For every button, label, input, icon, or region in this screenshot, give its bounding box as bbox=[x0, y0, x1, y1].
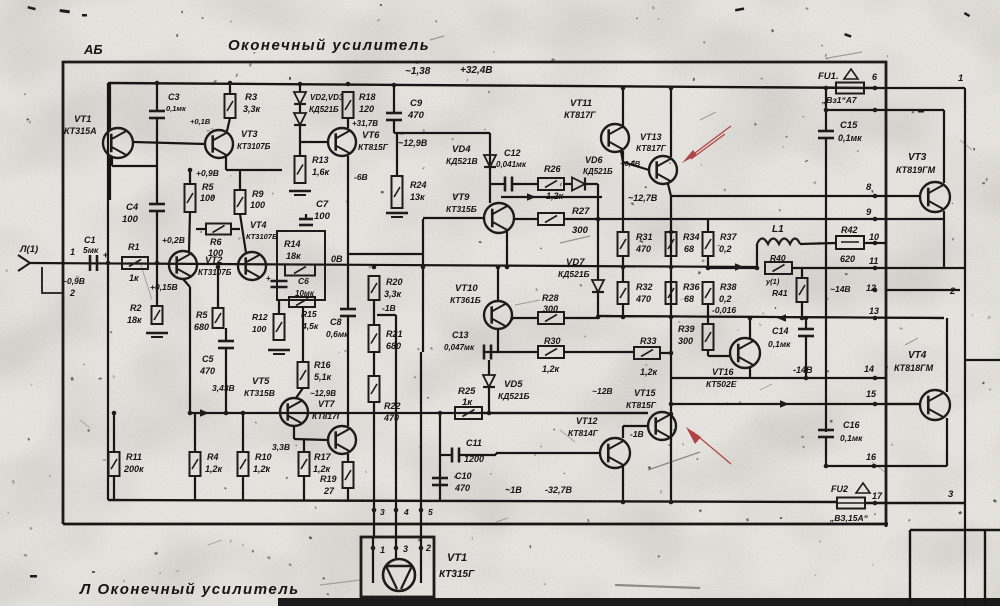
C16 to pin16 wire bbox=[825, 437, 827, 466]
svg-text:C10: C10 bbox=[455, 471, 472, 481]
resistor R34 bbox=[666, 232, 677, 256]
pin13 bus bbox=[598, 316, 944, 318]
net3 corner horizontal bbox=[910, 529, 1000, 531]
resistor R39 bbox=[703, 324, 714, 350]
svg-text:R9: R9 bbox=[252, 189, 264, 199]
svg-text:КД521Б: КД521Б bbox=[583, 167, 613, 176]
svg-text:-0,016: -0,016 bbox=[712, 305, 736, 315]
junction base rail bus bbox=[421, 265, 426, 270]
resistor R16 bbox=[298, 362, 309, 388]
svg-text:R10: R10 bbox=[255, 452, 272, 462]
svg-text:VT2: VT2 bbox=[205, 255, 223, 266]
net3 corner vertical bbox=[909, 530, 911, 606]
VT9-VT10 base rail bbox=[422, 219, 424, 352]
svg-text:КД521Б: КД521Б bbox=[309, 105, 339, 114]
svg-text:0,1мк: 0,1мк bbox=[166, 104, 187, 113]
junction C14 top bbox=[804, 316, 809, 321]
svg-text:1,2к: 1,2к bbox=[640, 367, 658, 377]
svg-text:VD7: VD7 bbox=[566, 257, 585, 268]
VT1 emitter link bbox=[112, 165, 157, 167]
junction VT12 gnd bbox=[621, 500, 626, 505]
resistor R5 bbox=[185, 184, 196, 212]
resistor R31 bbox=[618, 232, 629, 256]
junction R11 bus bbox=[112, 411, 117, 416]
R17 bottom bbox=[303, 476, 305, 500]
svg-text:R18: R18 bbox=[359, 92, 376, 102]
R2 top wire bbox=[156, 263, 158, 306]
junction pin8 top a bbox=[824, 108, 829, 113]
VT3 emitter down bbox=[943, 211, 945, 268]
resistor R6 bbox=[206, 224, 231, 235]
transistor VT5 bbox=[280, 398, 308, 426]
svg-text:C15: C15 bbox=[840, 120, 858, 131]
resistor R19 bbox=[343, 462, 354, 488]
C12 to R26 bbox=[512, 183, 538, 185]
pin8 top wire bbox=[826, 109, 944, 111]
svg-text:R28: R28 bbox=[542, 293, 559, 303]
svg-text:0,1мк: 0,1мк bbox=[838, 133, 862, 143]
VD5 top wire bbox=[488, 360, 490, 375]
connector pin2 dot bbox=[419, 546, 424, 551]
junction pin4 bbox=[394, 508, 399, 513]
svg-text:R17: R17 bbox=[314, 452, 332, 462]
C14 top wire bbox=[805, 318, 807, 329]
svg-text:C9: C9 bbox=[410, 98, 423, 109]
svg-text:R37: R37 bbox=[720, 232, 738, 242]
R6 right stub bbox=[231, 228, 240, 230]
svg-text:5: 5 bbox=[428, 507, 433, 517]
svg-text:FU1.: FU1. bbox=[818, 71, 839, 82]
svg-text:R33: R33 bbox=[640, 336, 657, 346]
inner left rail bbox=[107, 83, 109, 500]
VT3a emitter link bbox=[226, 169, 282, 171]
R11 top wire bbox=[113, 413, 115, 452]
capacitor C14 bbox=[798, 329, 814, 336]
svg-text:1: 1 bbox=[958, 73, 963, 84]
R41 bottom bbox=[801, 302, 803, 318]
svg-text:VT3: VT3 bbox=[908, 152, 927, 163]
svg-text:C13: C13 bbox=[452, 330, 469, 340]
svg-text:R19: R19 bbox=[320, 474, 337, 484]
svg-text:КТ3107Б: КТ3107Б bbox=[246, 232, 278, 241]
resistor R12 bbox=[274, 314, 285, 340]
capacitor C6 bbox=[271, 281, 288, 287]
svg-text:R12: R12 bbox=[252, 312, 268, 322]
resistor R20 bbox=[369, 276, 380, 300]
svg-text:0,041мк: 0,041мк bbox=[496, 160, 527, 169]
svg-text:5мк: 5мк bbox=[83, 245, 99, 255]
svg-text:+32,4В: +32,4В bbox=[460, 65, 493, 76]
VT9 to VT11 wire bbox=[501, 196, 602, 198]
svg-text:R39: R39 bbox=[678, 324, 695, 334]
svg-text:R41: R41 bbox=[772, 288, 788, 298]
junction R10 bus bbox=[241, 411, 246, 416]
svg-text:R5: R5 bbox=[196, 310, 208, 320]
junction pin14 frame bbox=[873, 376, 878, 381]
svg-text:R24: R24 bbox=[410, 180, 427, 190]
svg-text:КТ315Г: КТ315Г bbox=[439, 569, 475, 580]
svg-text:14: 14 bbox=[864, 364, 874, 374]
up arrow marker on line bbox=[344, 361, 346, 363]
svg-text:100: 100 bbox=[250, 200, 265, 210]
svg-text:0,047мк: 0,047мк bbox=[444, 343, 475, 352]
VT3a emitter wire bbox=[225, 157, 227, 170]
junction VD2 bus bbox=[298, 82, 303, 87]
diode VD7 bbox=[592, 280, 604, 292]
VT11 emitter to VT13 base bbox=[621, 151, 623, 162]
VT10 emitter down bbox=[497, 329, 499, 352]
svg-text:2: 2 bbox=[949, 286, 956, 297]
transistor VT15 bbox=[648, 412, 676, 440]
capacitor C13 bbox=[484, 345, 491, 360]
svg-text:C14: C14 bbox=[772, 326, 789, 336]
svg-text:1: 1 bbox=[380, 545, 385, 555]
svg-text:680: 680 bbox=[386, 341, 401, 351]
right vertical rail net1 bbox=[964, 88, 966, 606]
svg-text:КТ817Г: КТ817Г bbox=[564, 110, 596, 120]
svg-text:КТ815Г: КТ815Г bbox=[358, 142, 389, 152]
resistor R27 bbox=[538, 213, 564, 225]
svg-text:+0,15В: +0,15В bbox=[150, 282, 178, 292]
pin8 bus wire bbox=[671, 195, 886, 197]
VT12 collector stub bbox=[622, 426, 624, 438]
ground under R12 bbox=[268, 350, 290, 354]
junction R20 bus bbox=[372, 265, 377, 270]
VD3 to VT6 base bbox=[299, 125, 301, 142]
svg-text:C1: C1 bbox=[84, 235, 96, 245]
junction R5b bus bbox=[216, 265, 221, 270]
svg-text:620: 620 bbox=[840, 254, 855, 264]
capacitor C9 bbox=[386, 113, 402, 120]
junction VT10 bus bbox=[496, 265, 501, 270]
svg-text:VD4: VD4 bbox=[452, 144, 471, 155]
svg-text:VT4: VT4 bbox=[250, 220, 267, 230]
resistor R18 bbox=[343, 92, 354, 118]
svg-text:VT7: VT7 bbox=[318, 399, 336, 409]
svg-text:-6В: -6В bbox=[354, 172, 368, 182]
svg-text:R30: R30 bbox=[544, 336, 561, 346]
svg-text:VD6: VD6 bbox=[585, 155, 604, 165]
svg-text:КТ817Г: КТ817Г bbox=[636, 143, 667, 153]
VT3 collector bbox=[943, 110, 945, 183]
R37 bottom bbox=[707, 256, 709, 268]
diode VD6 bbox=[572, 178, 585, 191]
svg-text:КД521Б: КД521Б bbox=[558, 269, 590, 279]
junction VT11 bus bbox=[621, 86, 626, 91]
junction C5 bus bbox=[224, 411, 229, 416]
R9 top wire bbox=[239, 170, 241, 190]
svg-text:КТ502Е: КТ502Е bbox=[706, 379, 737, 389]
VT16 collector down bbox=[749, 367, 751, 378]
transistor VT3 bbox=[920, 182, 950, 212]
transistor VT1 bbox=[103, 128, 133, 158]
R39 top wire bbox=[707, 317, 709, 324]
R33 right wire bbox=[660, 352, 671, 354]
ground bus bbox=[108, 500, 838, 502]
VD6 node vertical bbox=[597, 184, 599, 219]
junction VT15 rail bbox=[669, 412, 674, 417]
C13 wire bbox=[484, 351, 498, 353]
R41 top wire bbox=[801, 268, 803, 278]
svg-text:Оконечный усилитель: Оконечный усилитель bbox=[228, 37, 430, 54]
junction FU1 out bbox=[873, 86, 878, 91]
svg-text:300: 300 bbox=[678, 336, 693, 346]
VT1 emitter wire bbox=[111, 157, 113, 166]
svg-text:R6: R6 bbox=[210, 237, 222, 247]
input connector chevron bbox=[18, 255, 30, 271]
R5 to VT2 collector bbox=[189, 212, 190, 252]
svg-text:8: 8 bbox=[866, 182, 872, 193]
junction VT9 emitter bus bbox=[505, 265, 510, 270]
junction input rail bbox=[106, 261, 111, 266]
junction R36 bus bbox=[669, 315, 674, 320]
resistor R10 bbox=[238, 452, 249, 476]
svg-text:0,2: 0,2 bbox=[719, 294, 732, 304]
VT13 emitter down bbox=[668, 184, 671, 196]
diode VD4 bbox=[484, 155, 496, 167]
svg-text:~12,7В: ~12,7В bbox=[628, 193, 658, 203]
svg-text:VT6: VT6 bbox=[362, 130, 380, 141]
inner rail through VT1 bbox=[109, 157, 111, 200]
svg-text:R25: R25 bbox=[458, 386, 476, 397]
resistor R30 bbox=[538, 346, 564, 358]
VT16 emitter up bbox=[749, 318, 751, 339]
R32 bottom bbox=[622, 304, 624, 317]
driver bus bbox=[190, 412, 648, 414]
svg-text:VT1: VT1 bbox=[74, 114, 91, 125]
svg-text:VT13: VT13 bbox=[640, 132, 662, 142]
mid bus to L1 bbox=[708, 267, 757, 269]
svg-text:FU2: FU2 bbox=[831, 484, 848, 494]
svg-text:R13: R13 bbox=[312, 155, 329, 165]
junction r40 frame bbox=[873, 266, 878, 271]
resistor R22 bbox=[369, 376, 380, 402]
VT11 collector wire bbox=[622, 88, 624, 126]
svg-text:1,2к: 1,2к bbox=[313, 464, 331, 474]
svg-text:17: 17 bbox=[872, 491, 883, 501]
driver bus right seg bbox=[482, 412, 648, 414]
svg-text:VT1: VT1 bbox=[447, 552, 467, 564]
svg-text:R27: R27 bbox=[572, 206, 590, 217]
svg-text:C4: C4 bbox=[126, 202, 139, 213]
svg-text:VT4: VT4 bbox=[908, 350, 927, 361]
VT1-VT3 link wire bbox=[134, 142, 205, 144]
R42 to frame bbox=[864, 242, 886, 244]
junction pin17 frame bbox=[873, 501, 878, 506]
svg-text:R32: R32 bbox=[636, 282, 653, 292]
svg-text:680: 680 bbox=[194, 322, 209, 332]
resistor R15 bbox=[289, 297, 315, 307]
VT9 base wire bbox=[423, 217, 484, 219]
emitter jog wire bbox=[348, 253, 423, 255]
svg-text:VT3: VT3 bbox=[241, 129, 258, 139]
VT10 to R28 bbox=[510, 318, 513, 322]
svg-text:18к: 18к bbox=[286, 251, 301, 261]
VD2-VD3 wire bbox=[299, 104, 301, 113]
R31 bottom bbox=[622, 256, 624, 282]
net2 row wire bbox=[886, 267, 965, 269]
fuse FU1 triangle sign bbox=[844, 69, 858, 79]
diode VD5 bbox=[483, 375, 495, 387]
transistor VT16 bbox=[730, 338, 760, 368]
transistor VT6 bbox=[328, 128, 356, 156]
svg-text:~12В: ~12В bbox=[592, 386, 613, 396]
VT1 collector wire bbox=[109, 83, 111, 129]
mid bus 0V bbox=[30, 263, 757, 267]
svg-text:+0,9В: +0,9В bbox=[196, 168, 219, 178]
wire to C12 bbox=[490, 183, 505, 185]
R39 to VT16 base bbox=[707, 350, 709, 356]
VD7 vertical bbox=[597, 219, 599, 280]
connector box VT1 bbox=[361, 537, 434, 597]
right lower second vertical bbox=[984, 530, 986, 606]
transistor VT3a bbox=[205, 130, 233, 158]
transistor VT10 bbox=[484, 301, 512, 329]
svg-text:4: 4 bbox=[403, 507, 409, 517]
svg-text:L1: L1 bbox=[772, 224, 784, 235]
outer frame of amplifier block bbox=[63, 62, 886, 527]
VD2 top wire bbox=[299, 84, 301, 92]
svg-text:470: 470 bbox=[199, 366, 215, 376]
svg-text:+31,7В: +31,7В bbox=[352, 119, 378, 128]
R31 column top bbox=[622, 151, 624, 232]
capacitor C10 bbox=[432, 478, 448, 485]
svg-text:11: 11 bbox=[869, 256, 878, 266]
svg-text:200к: 200к bbox=[123, 464, 144, 474]
ground bus after fuse FU2 bbox=[864, 502, 965, 504]
fuse FU2 triangle sign bbox=[856, 483, 870, 493]
capacitor C7 bbox=[299, 219, 313, 225]
svg-text:-14В: -14В bbox=[793, 365, 813, 375]
svg-text:VT12: VT12 bbox=[576, 416, 598, 426]
junction R37 bus bbox=[706, 266, 711, 271]
capacitor C4 bbox=[149, 204, 165, 211]
pin9 stub bbox=[886, 218, 944, 220]
svg-text:470: 470 bbox=[454, 483, 470, 493]
transistor VT2 bbox=[169, 251, 197, 279]
svg-text:R36: R36 bbox=[683, 282, 701, 292]
resistor R40 bbox=[765, 262, 792, 274]
svg-text:2: 2 bbox=[425, 543, 431, 553]
svg-text:9: 9 bbox=[866, 207, 872, 218]
svg-text:R31: R31 bbox=[636, 232, 653, 242]
junction pin9 dot bbox=[873, 217, 878, 222]
svg-text:13к: 13к bbox=[410, 192, 425, 202]
svg-text:R14: R14 bbox=[284, 239, 301, 249]
R5 top wire bbox=[189, 170, 191, 184]
pin9 bus wire bbox=[564, 218, 886, 220]
block frame around R14 bbox=[277, 231, 325, 300]
connector pin2 wire bbox=[420, 537, 422, 583]
svg-text:3: 3 bbox=[948, 489, 954, 500]
svg-text:1к: 1к bbox=[462, 397, 473, 408]
R28 left wire bbox=[513, 317, 538, 319]
C4 bottom wire bbox=[156, 211, 158, 263]
transistor VT12 bbox=[600, 438, 630, 468]
junction L1 bus bbox=[755, 266, 760, 271]
svg-text:R11: R11 bbox=[126, 452, 142, 462]
C7 top wire bbox=[305, 214, 307, 219]
svg-text:1,2к: 1,2к bbox=[205, 464, 223, 474]
resistor R13 bbox=[295, 156, 306, 183]
C5 bottom wire bbox=[225, 348, 227, 413]
svg-text:68: 68 bbox=[684, 294, 694, 304]
connector pin1 dot bbox=[371, 546, 376, 551]
R22 bottom to connector pin bbox=[373, 402, 375, 538]
VT4 base stub bbox=[886, 403, 921, 405]
svg-text:+: + bbox=[266, 274, 271, 283]
svg-text:15: 15 bbox=[866, 389, 877, 399]
C11 branch vertical bbox=[439, 413, 441, 486]
right mid horizontal bbox=[965, 359, 1000, 361]
VD5 to bus bbox=[488, 388, 490, 413]
R4 bottom bbox=[194, 476, 196, 500]
svg-text:1: 1 bbox=[70, 247, 75, 257]
svg-text:3,43В: 3,43В bbox=[212, 383, 235, 393]
signal arrow to VT11 bbox=[527, 193, 536, 201]
svg-text:0,2: 0,2 bbox=[719, 244, 732, 254]
svg-text:470: 470 bbox=[635, 294, 651, 304]
R30 left wire bbox=[496, 351, 538, 353]
junction VT16 top bbox=[748, 316, 753, 321]
VT4 emitter column bbox=[946, 418, 948, 466]
red pointer arrow to VT13 bbox=[682, 126, 731, 163]
svg-text:3: 3 bbox=[380, 507, 385, 517]
svg-text:R34: R34 bbox=[683, 232, 700, 242]
junction r42 frame bbox=[873, 241, 878, 246]
diode VD3 bbox=[294, 113, 306, 125]
svg-text:КТ315В: КТ315В bbox=[244, 388, 275, 398]
L1 left vertical bbox=[756, 244, 758, 268]
junction pin8 top b bbox=[873, 108, 878, 113]
junction pin3 bbox=[372, 508, 377, 513]
svg-text:1,2к: 1,2к bbox=[253, 464, 271, 474]
outer frame bottom edge bbox=[63, 523, 888, 526]
R18 to VT6 bbox=[347, 118, 349, 128]
capacitor C16 bbox=[818, 430, 834, 437]
resistor R2 bbox=[152, 306, 163, 324]
transistor VT4b bbox=[920, 390, 950, 420]
R37 column top bbox=[707, 219, 709, 232]
svg-text:R40: R40 bbox=[770, 253, 786, 263]
VT9 collector wire bbox=[489, 133, 491, 203]
C9 bottom wire bbox=[393, 120, 395, 133]
L1 to R42 bbox=[800, 243, 836, 244]
svg-text:+: + bbox=[103, 250, 108, 260]
resistor R5b bbox=[213, 308, 224, 328]
junction pin8 dot bbox=[873, 194, 878, 199]
connector pin3 wire bbox=[395, 537, 397, 560]
diode VD2 bbox=[294, 92, 306, 104]
R24 top wire bbox=[396, 133, 398, 176]
R19 to ground bbox=[347, 488, 349, 500]
connector pin1 wire bbox=[372, 537, 374, 583]
svg-text:КТ315А: КТ315А bbox=[64, 126, 97, 136]
resistor R36 bbox=[666, 282, 677, 304]
junction C4 bus bbox=[155, 261, 160, 266]
VT2 emitter rail bbox=[189, 287, 191, 413]
svg-text:R16: R16 bbox=[314, 360, 332, 370]
R9 to VT4 collector bbox=[240, 214, 246, 253]
red pointer arrow to VT15 bbox=[686, 427, 731, 464]
svg-text:13: 13 bbox=[869, 306, 879, 316]
svg-text:~12,9В: ~12,9В bbox=[398, 138, 428, 148]
pin5 vertical bbox=[420, 352, 422, 538]
svg-text:КД521В: КД521В bbox=[446, 156, 478, 166]
svg-text:-1В: -1В bbox=[382, 303, 396, 313]
resistor R9 bbox=[235, 190, 246, 214]
svg-text:3: 3 bbox=[403, 544, 408, 554]
